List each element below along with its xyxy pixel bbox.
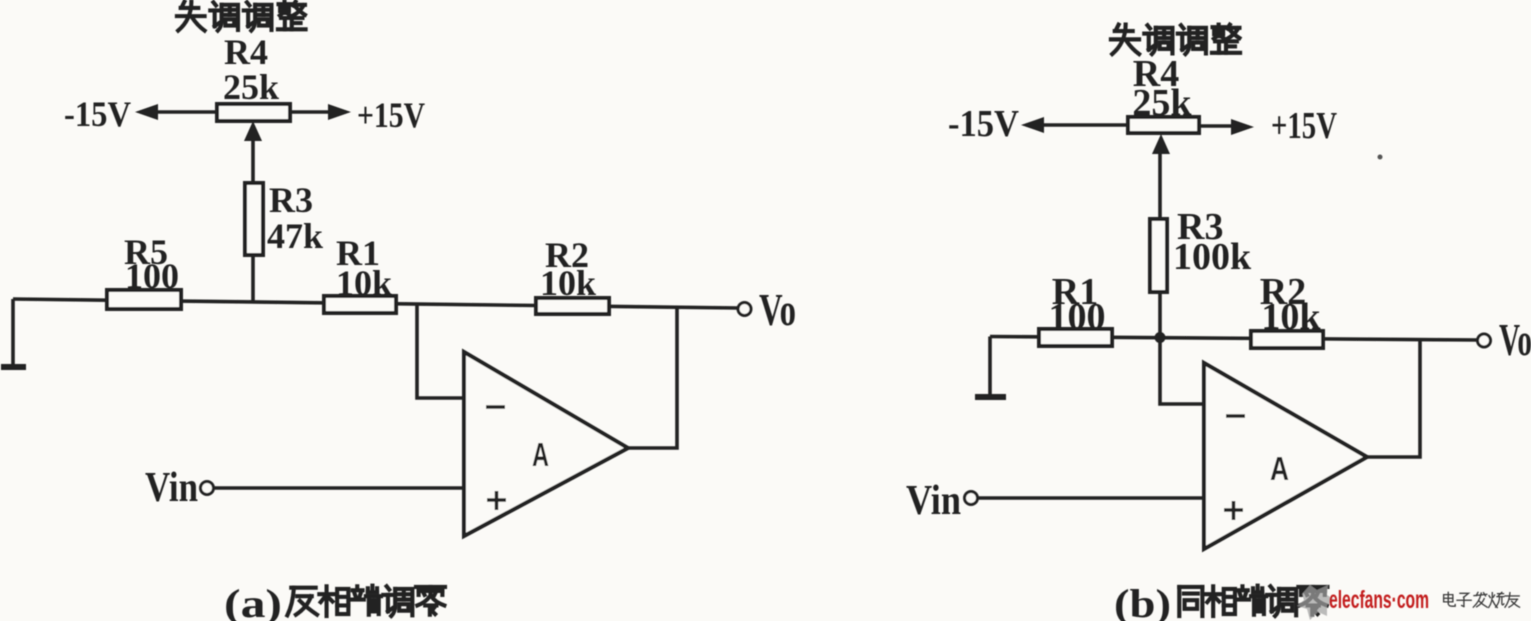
svg-text:10k: 10k [540,263,596,303]
svg-text:25k: 25k [1132,82,1192,124]
svg-text:Vin: Vin [906,478,961,524]
svg-text:10k: 10k [1261,296,1321,338]
svg-text:-15V: -15V [64,94,131,134]
svg-text:47k: 47k [267,216,323,256]
svg-text:10k: 10k [336,263,392,303]
svg-text:+15V: +15V [1271,105,1337,147]
svg-text:25k: 25k [223,67,279,107]
svg-text:A: A [1270,450,1289,487]
svg-text:(b): (b) [1114,581,1171,621]
svg-text:elecfans·com: elecfans·com [1329,586,1429,614]
svg-text:(a): (a) [224,581,282,621]
svg-text:100k: 100k [1173,236,1252,278]
svg-text:Vo: Vo [1499,315,1531,365]
svg-text:R3: R3 [269,180,313,220]
svg-text:-15V: -15V [948,103,1019,145]
svg-text:R4: R4 [224,32,268,72]
svg-text:Vin: Vin [145,465,198,511]
svg-text:A: A [532,436,549,473]
svg-text:100: 100 [1049,296,1106,338]
svg-text:100: 100 [125,256,179,296]
svg-text:Vo: Vo [759,285,796,335]
svg-text:+15V: +15V [357,95,425,135]
